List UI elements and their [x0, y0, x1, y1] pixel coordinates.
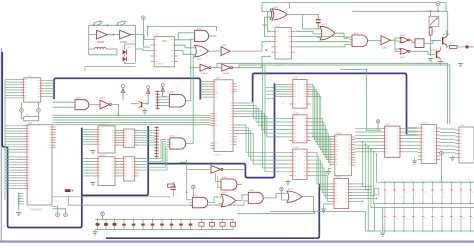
wire U7 out	[335, 33, 349, 38]
wire port A line 6	[5, 138, 24, 140]
wire port B line 5	[5, 166, 24, 168]
inverter U1B	[120, 30, 131, 39]
ground IC6	[90, 183, 95, 186]
wire IC14-IC15 8	[404, 151, 418, 153]
wire R4 out	[457, 46, 466, 48]
wire U21 out to U22	[263, 193, 284, 198]
diode D8	[170, 219, 174, 230]
OR gate U22	[284, 191, 302, 202]
wire gnd stem B	[414, 157, 416, 161]
wire gnd bundle 2	[19, 195, 24, 197]
wire U18 out	[237, 184, 242, 186]
resistor network RN1	[65, 189, 71, 192]
LED column 4	[411, 179, 418, 232]
svg-text:74595: 74595	[99, 124, 106, 126]
svg-text:4069: 4069	[100, 98, 106, 100]
IC2 oscillator	[151, 37, 178, 67]
wire matrix feed 1	[363, 142, 372, 187]
wire IC17 to IC11 bit 1	[237, 125, 290, 152]
junction	[118, 114, 120, 116]
wires IC5 to U12	[53, 102, 73, 107]
svg-text:4082: 4082	[354, 33, 360, 35]
IC7 latch	[120, 129, 138, 147]
IC4 buffer	[20, 78, 44, 102]
bus A stubs to IC17	[200, 81, 210, 83]
bus stubs to IC5	[82, 129, 95, 131]
OR gate U3A	[192, 45, 209, 56]
junction	[313, 210, 315, 212]
wire IC8 to NAND B 1	[135, 140, 167, 159]
wire U20 out to U19	[208, 197, 219, 203]
wire NAND B out up	[186, 54, 193, 143]
wire osc bottom	[89, 49, 117, 55]
frame left border	[0, 48, 2, 241]
ground IC12	[326, 172, 331, 175]
diode D3	[122, 219, 126, 230]
wire to U5A	[190, 67, 200, 69]
wire U8 out	[368, 40, 381, 42]
wire gnd bundle 1	[19, 193, 24, 195]
svg-text:4001: 4001	[400, 57, 406, 59]
wire port B line 4	[5, 164, 24, 166]
svg-text:UDN?: UDN?	[294, 113, 301, 115]
wire IC6-IC8 4	[115, 166, 120, 168]
svg-text:74HC?: 74HC?	[215, 155, 223, 157]
VCC arrow 3	[161, 84, 165, 94]
wire IC5-IC7 4	[115, 137, 120, 139]
capacitor C2	[171, 187, 176, 190]
svg-text:7445: 7445	[385, 124, 391, 126]
wire IC7 to J2 3	[135, 134, 155, 136]
IC16 driver	[455, 127, 474, 163]
wire data bus line 1	[53, 114, 211, 116]
svg-text:4069N: 4069N	[97, 41, 104, 44]
ground IC1	[16, 213, 21, 216]
wire port B line 6	[5, 169, 24, 171]
wire gnd bundle 4	[19, 200, 24, 202]
wire IC6-IC8 6	[115, 172, 120, 174]
VCC arrow 1	[121, 85, 125, 95]
wire IC9/10 to IC12 bit 5	[311, 94, 332, 147]
junction	[365, 69, 367, 71]
bus C (left frame loop)	[2, 52, 82, 228]
trimmer RV1	[429, 16, 439, 26]
wire IC11 to IC13 bit 7	[311, 176, 331, 202]
inverter U17	[211, 166, 223, 174]
bus B stubs to IC15	[407, 127, 418, 129]
wire matrix feed 3	[368, 147, 374, 231]
wire port A line 2	[5, 127, 24, 129]
wire to U1A in	[89, 34, 97, 36]
IC5 shift register	[94, 126, 118, 153]
capacitor C10	[230, 219, 235, 230]
AND gate U20	[189, 197, 207, 208]
LED column 9	[459, 179, 466, 232]
wire Q2 emitter	[440, 59, 442, 61]
wire U1A out to U1B in	[107, 34, 119, 36]
pin P8	[280, 187, 284, 191]
VCC arrow 2	[146, 86, 150, 96]
wire osc left	[88, 25, 90, 55]
wire trimmer	[430, 11, 432, 27]
wire port A line 3	[5, 130, 24, 132]
wire port B line 11	[5, 182, 24, 184]
gray net 2	[68, 197, 245, 205]
wire IC7 to J2 5	[135, 139, 155, 141]
LED column 8	[449, 179, 456, 232]
matrix rail row1 bottom	[375, 203, 474, 205]
wire IC5-IC7 7	[115, 144, 120, 146]
pin P9	[101, 212, 105, 216]
svg-text:74164: 74164	[336, 133, 343, 135]
diode D6	[151, 219, 155, 230]
wire IC3 to U7	[295, 31, 317, 34]
wire IC6-IC8 5	[115, 169, 120, 171]
IC14 decoder	[381, 126, 404, 157]
wire U5B out	[233, 56, 271, 67]
IC3 counter	[271, 28, 295, 60]
wire IC2 to OR in1	[174, 45, 191, 48]
wire port A line 7	[5, 141, 24, 143]
wire IC9/10 to IC12 bit 2	[311, 87, 332, 139]
wire conn line 4	[5, 86, 20, 88]
resistor R6	[168, 184, 175, 187]
ground B	[412, 161, 417, 164]
svg-text:4081: 4081	[222, 177, 228, 179]
wire P10 stem to matrix	[440, 155, 442, 182]
wire IC2 to OR in2	[174, 51, 191, 55]
wire matrix feed 5	[373, 152, 376, 204]
svg-text:74154: 74154	[422, 123, 429, 125]
wire U1B out	[130, 34, 135, 36]
wire to IC11 pin 6	[265, 65, 289, 172]
wire IC17 to IC11 bit 3	[237, 131, 290, 161]
wire IC6-IC8 2	[115, 160, 120, 162]
wire port A line 4	[5, 133, 24, 135]
wire IC15-IC16 4	[440, 138, 455, 140]
wire gnd stem	[144, 108, 146, 111]
bus stubs to IC6	[82, 158, 95, 160]
matrix rail row2 top	[383, 207, 474, 209]
LED column 2	[392, 179, 399, 232]
wire IC6-IC8 7	[115, 175, 120, 177]
svg-text:BC557: BC557	[430, 50, 437, 52]
diode D9	[179, 219, 183, 230]
ground matrix	[380, 233, 385, 236]
LED column 10	[468, 179, 474, 232]
wire conn line 6	[5, 92, 20, 94]
resistor R4	[450, 45, 458, 48]
wire port A line 5	[5, 135, 24, 137]
wire U9 out to NOR gates	[391, 38, 401, 51]
wire port A line 10	[5, 149, 24, 151]
wires IC3 to U8	[295, 37, 349, 47]
svg-text:4070: 4070	[273, 7, 279, 9]
svg-text:IC3: IC3	[276, 25, 280, 28]
wire gnd stem	[94, 230, 96, 232]
LED column 1	[382, 179, 389, 232]
wire port A line 8	[5, 143, 24, 145]
wire IC9/10 to IC12 bit 9	[311, 126, 332, 157]
capacitor C1	[316, 14, 321, 29]
junction	[186, 191, 188, 193]
transistor Q2	[437, 50, 441, 59]
resistor R7 (matrix)	[375, 189, 379, 195]
wire gnd stem IC13	[324, 204, 333, 209]
wire to OR U7	[303, 28, 318, 30]
IC1 microcontroller	[24, 125, 56, 205]
wire IC15-IC16 1	[440, 128, 455, 130]
IC9 driver	[289, 80, 310, 109]
wire port B line 12	[5, 185, 24, 187]
ground diode row	[92, 232, 97, 235]
wire U12 out	[89, 104, 100, 106]
ground IC13	[321, 209, 326, 212]
wire IC12 to IC14 1	[355, 128, 381, 130]
wire port A line 1	[5, 125, 24, 127]
wire to IC11 pin 5	[262, 63, 289, 168]
wire U19 out to U21	[236, 195, 246, 201]
wire IC9/10 to IC12 bit 11	[311, 133, 332, 162]
svg-text:4071: 4071	[288, 189, 294, 191]
junction	[430, 10, 432, 12]
wire IC12 to IC14 3	[355, 134, 381, 136]
wire IC17 to IC10 bit 5	[237, 114, 290, 133]
matrix rail row2 bottom	[375, 230, 474, 232]
wire IC9/10 to IC12 bit 10	[311, 130, 332, 160]
cap group rail top	[94, 218, 96, 220]
svg-text:OSC: OSC	[162, 41, 167, 43]
matrix left vertical 1	[374, 204, 376, 231]
wire osc aux	[85, 67, 136, 72]
svg-text:4071: 4071	[322, 24, 328, 26]
wire gnd rail	[18, 194, 20, 212]
wire U11 to Q1	[424, 41, 441, 44]
wire Q1 c/e	[447, 30, 449, 47]
wire U5A out to U5B	[211, 67, 222, 69]
svg-text:out: out	[466, 42, 469, 45]
LED D1	[123, 50, 127, 55]
wire IC14-IC15 3	[404, 134, 418, 136]
wire XOR top stub	[289, 3, 291, 10]
wire osc right vertical	[135, 25, 137, 62]
wire gnd stub	[460, 62, 462, 64]
wire LED top	[125, 43, 136, 45]
resistor R2 (slanted)	[116, 20, 127, 26]
wire IC14-IC15 4	[404, 138, 418, 140]
svg-text:4069N: 4069N	[223, 73, 230, 75]
pin header J2	[155, 126, 159, 158]
wire IC15-IC16 8	[440, 152, 455, 154]
wire IC13 pin 2	[349, 186, 366, 188]
wire IC9/10 to IC12 bit 12	[311, 137, 332, 165]
svg-text:4073: 4073	[193, 195, 199, 197]
wire long rail 1	[214, 63, 448, 124]
wire IC11 to IC13 bit 4	[311, 164, 331, 193]
wire IC17 to IC11 bit 2	[237, 128, 290, 156]
wire feedback loop top	[148, 27, 217, 37]
wire IC5-IC7 5	[115, 139, 120, 141]
wire IC6-IC8 3	[115, 163, 120, 165]
wire to edge	[469, 46, 474, 48]
wire U17 out	[222, 168, 245, 170]
resistor R5	[24, 117, 39, 121]
wire IC7 to J2 1	[135, 129, 155, 131]
wire data bus line 5	[53, 124, 211, 126]
AND gate U21	[245, 192, 263, 203]
wire IC13 pin 3	[349, 189, 369, 191]
wire port B line 1	[5, 156, 24, 158]
wire IC11 to IC13 bit 5	[311, 168, 331, 196]
wire IC5-IC7 2	[115, 132, 120, 134]
LED column 3	[401, 179, 408, 232]
wire vcc1 stem	[122, 94, 124, 101]
diode D7	[160, 219, 164, 230]
wire vertical feed	[187, 160, 190, 200]
wire U13 out	[111, 105, 119, 116]
wire P11 stem	[377, 123, 379, 130]
wire top rail	[262, 3, 446, 12]
wire XOR out	[286, 14, 319, 29]
IC15 decoder	[418, 125, 441, 164]
wire IC9/10 to IC12 bit 1	[311, 85, 332, 137]
pin VCC1	[142, 16, 146, 20]
wire XOR input loop	[262, 12, 272, 32]
wire port B line 2	[5, 159, 24, 161]
matrix rail row1 top	[381, 181, 474, 183]
svg-text:IC1: IC1	[29, 122, 33, 125]
wires into U18	[216, 173, 219, 187]
buffer U9	[381, 36, 391, 45]
left connector rail	[4, 80, 6, 200]
junction	[265, 49, 267, 51]
bus C branch (to center ICs)	[148, 83, 274, 177]
pin P3	[20, 108, 24, 112]
wire long rail 2	[236, 65, 450, 124]
wire IC14-IC15 6	[404, 144, 418, 146]
junction node OUT	[466, 45, 469, 48]
wire rail to IC_H	[340, 70, 381, 131]
wire IC5-IC7 6	[115, 142, 120, 144]
capacitor C4	[104, 219, 108, 230]
ground D	[450, 158, 455, 161]
IC12 register	[331, 135, 355, 176]
capacitor C5	[112, 219, 116, 230]
wire IC13 pin 5	[349, 195, 374, 197]
wire IC12 to IC14 4	[355, 138, 381, 140]
transistor Q3	[139, 101, 142, 108]
wire IC15-IC16 6	[440, 145, 455, 147]
wire IC17 to IC10 bit 6	[237, 117, 290, 137]
junction	[146, 103, 148, 105]
LED column 5	[420, 179, 427, 232]
wire IC13 pin 4	[349, 192, 371, 194]
svg-text:4071: 4071	[222, 192, 228, 194]
bus B (top-center horizontal)	[253, 73, 407, 134]
wire IC11 to IC13 bit 3	[311, 160, 331, 190]
diode D10	[189, 219, 193, 230]
wire IC15-IC16 5	[440, 142, 455, 144]
wire data bus line 3	[53, 119, 211, 121]
wire IC13 pin 1	[349, 183, 363, 185]
capacitor C7	[199, 219, 204, 230]
AND gate U18	[218, 179, 237, 190]
wire IC14-IC15 1	[404, 128, 418, 130]
wire IC17 to IC10 bit 3	[237, 108, 290, 125]
IC17 port expander	[210, 80, 236, 152]
resistor R1 (slanted)	[92, 20, 103, 26]
wire pins to R5	[22, 112, 39, 119]
inductor L1	[95, 47, 107, 49]
wire OR out to buffer	[209, 50, 222, 52]
wire gnd IC12	[329, 169, 332, 172]
wire IC14-IC15 2	[404, 131, 418, 133]
svg-text:4012: 4012	[170, 136, 176, 138]
junction	[446, 46, 448, 48]
wire Q2 collector	[440, 47, 442, 50]
wire IC11 to IC13 bit 2	[311, 156, 331, 187]
wire P7 stem	[192, 189, 194, 198]
wire IC8 to NAND B 3	[135, 144, 167, 164]
wire U22 out	[302, 197, 314, 212]
svg-text:IC2: IC2	[155, 34, 159, 37]
LED column 7	[440, 179, 447, 232]
inverter U5B	[222, 64, 233, 71]
junction	[147, 26, 149, 28]
wire IC7 to J2 2	[135, 132, 155, 134]
pin P4	[37, 108, 41, 112]
svg-text:4081: 4081	[76, 98, 82, 100]
wire top-right rail	[352, 3, 448, 37]
wire to U17	[187, 168, 211, 170]
junction	[437, 10, 439, 12]
wire IC17 to IC10 bit 2	[237, 106, 290, 122]
svg-text:4081: 4081	[197, 29, 203, 31]
ground Q2	[438, 62, 443, 65]
junction	[113, 34, 115, 36]
ground IC5	[90, 151, 95, 154]
wire osc to IC2 pin2	[136, 49, 151, 51]
wire IC14-IC15 5	[404, 141, 418, 143]
wire gnd stem IC11	[287, 179, 289, 181]
wire port A line 11	[5, 151, 24, 153]
wire U10B to Q2	[410, 51, 435, 54]
bus A stubs to IC4	[45, 80, 54, 82]
wire LED chain	[125, 44, 136, 64]
inverter U13	[100, 100, 112, 109]
wire vcc2 stem	[147, 95, 149, 104]
svg-text:4012: 4012	[170, 92, 176, 94]
wire pins to IC4	[22, 102, 39, 108]
wire conn line 8	[5, 97, 20, 99]
bus A (top-left horizontal)	[54, 78, 200, 99]
svg-text:4050: 4050	[382, 48, 388, 50]
wire IC7 to J2 6	[135, 142, 155, 144]
stubs left of bus vertical	[266, 87, 275, 89]
svg-text:4069: 4069	[212, 164, 218, 166]
diode row top rail	[95, 218, 234, 220]
wire osc out to IC2	[136, 35, 151, 40]
NOR gate U10A	[400, 37, 410, 42]
wire long net A	[270, 211, 375, 231]
wire IC7 to J2 7	[135, 144, 155, 146]
wire port B line 9	[5, 177, 24, 179]
IC8 latch	[120, 157, 138, 181]
svg-text:UDN?: UDN?	[335, 177, 342, 179]
wire U10A to U11	[410, 40, 415, 43]
pin P10	[440, 151, 444, 155]
wire matrix feed 6	[376, 154, 380, 182]
